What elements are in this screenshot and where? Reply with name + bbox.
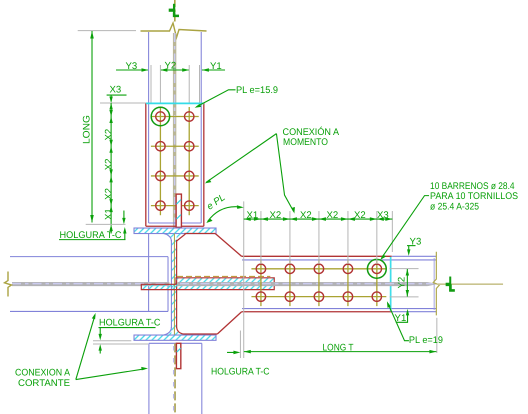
svg-text:CONEXION A: CONEXION A — [15, 367, 71, 378]
column flange right — [200, 32, 202, 223]
right tee bolt lines horizontal — [251, 269, 386, 297]
svg-text:HOLGURA T-C: HOLGURA T-C — [99, 318, 161, 329]
bottom tee flange bar — [134, 335, 216, 340]
beam web centerline dashes — [12, 283, 168, 285]
top plate bottom purple line — [149, 222, 202, 224]
extension line top left — [78, 30, 136, 32]
beam left break symbol — [5, 272, 12, 297]
svg-text:CORTANTE: CORTANTE — [18, 378, 70, 389]
label PL e=15.9 with leader — [195, 85, 278, 108]
gauge extension lines for Y dims — [151, 65, 200, 103]
beam flange lines right (inner) — [242, 256, 436, 311]
green highlight circle top-left bolt — [151, 107, 169, 125]
tee profile bottom edge red — [183, 333, 217, 335]
svg-text:X2: X2 — [104, 129, 115, 141]
top plate right edge — [203, 103, 205, 226]
column below: web — [174, 343, 176, 414]
tee stem stub (section) in top plate — [176, 194, 181, 227]
leader cortante to beam — [76, 313, 96, 380]
extension line plate top left — [100, 102, 146, 104]
svg-text:X3: X3 — [377, 210, 389, 221]
column below: flange right — [201, 343, 203, 414]
bolt gauge lines (olive verticals) — [159, 107, 161, 215]
right tee cyan cut edge — [390, 257, 392, 311]
svg-text:X2: X2 — [104, 158, 115, 170]
label e PL with arc leader — [205, 192, 244, 223]
right Y1 dimension — [395, 309, 410, 324]
label PL e=19 with leader — [387, 301, 443, 346]
top plate PL e=15.9 left edge — [145, 103, 147, 226]
label CONEXION A CORTANTE — [15, 367, 71, 389]
column below: top edge — [149, 342, 202, 344]
LONG dimension — [82, 31, 94, 223]
tee fillets top — [164, 234, 186, 242]
dimension Y2 — [160, 61, 189, 72]
svg-text:HOLGURA T-C: HOLGURA T-C — [211, 366, 270, 377]
top plate bottom red line — [146, 225, 204, 227]
label CONEXION A MOMENTO — [283, 126, 340, 148]
right tee bolt gauge verticals — [261, 259, 377, 306]
left bolt row dimension chain — [109, 103, 125, 234]
green highlight circle right bolt — [367, 259, 386, 278]
column web (top) — [173, 33, 176, 228]
beam centerline right — [437, 283, 503, 285]
tee profile top edge red — [184, 233, 215, 235]
svg-text:PL e=19: PL e=19 — [409, 335, 443, 346]
svg-text:LONG T: LONG T — [323, 342, 354, 353]
svg-text:ø 25.4 A-325: ø 25.4 A-325 — [430, 201, 479, 212]
bolts right tee (10) — [256, 264, 381, 301]
bolt row crosshairs — [151, 117, 199, 206]
beam right break line — [433, 252, 439, 316]
svg-text:PL e=15.9: PL e=15.9 — [236, 85, 278, 96]
LONG T dimension — [244, 342, 437, 353]
beam web gray taper — [427, 282, 436, 286]
bolts top plate (8) — [156, 112, 194, 211]
tee fillets bottom — [164, 327, 184, 335]
right Y3 dimension — [407, 237, 421, 256]
column below: centerline dashes — [173, 346, 175, 414]
tee stem stub below — [176, 343, 180, 368]
centerline symbol top — [169, 4, 179, 17]
beam web gray right — [178, 282, 428, 286]
right chain dimension line — [244, 217, 393, 221]
svg-text:X2: X2 — [104, 188, 115, 200]
svg-text:X2: X2 — [300, 210, 312, 221]
beam web centerline dashes right — [180, 283, 433, 285]
tee flare diagonal top — [215, 234, 241, 257]
svg-text:MOMENTO: MOMENTO — [283, 137, 328, 148]
column top break line — [141, 23, 207, 38]
svg-text:X1: X1 — [104, 208, 115, 220]
right chain extension lines — [240, 201, 436, 358]
leader cortante to column — [76, 367, 148, 380]
dimension Y1 — [202, 61, 225, 72]
beam web gray — [12, 282, 169, 286]
right Y2 dimension — [397, 269, 410, 297]
svg-text:X3: X3 — [110, 85, 122, 96]
leader momento to right chain — [276, 134, 295, 214]
tee stem (hatched) — [164, 234, 185, 336]
right tee plate bottom edge red — [242, 311, 392, 313]
svg-text:Y3: Y3 — [126, 61, 138, 72]
svg-text:LONG: LONG — [82, 115, 93, 144]
extension lines right Y dims — [390, 269, 419, 297]
tee flare diagonal bottom — [217, 312, 241, 334]
svg-text:X2: X2 — [327, 210, 339, 221]
svg-text:X2: X2 — [270, 210, 282, 221]
hidden bolt line web splice — [177, 275, 270, 277]
extension lines holgura middle — [93, 341, 148, 344]
svg-text:Y2: Y2 — [165, 61, 177, 72]
label HOLGURA T-C (top) — [59, 227, 127, 241]
right chain labels — [247, 210, 389, 221]
leader momento to plate edge — [205, 134, 277, 184]
dimension X3 label — [107, 85, 127, 104]
column centerline top — [174, 0, 176, 22]
centerline symbol right — [446, 277, 455, 292]
right tee plate top edge red — [242, 255, 392, 257]
top plate cyan cut edge — [146, 102, 204, 104]
svg-text:Y2: Y2 — [397, 277, 408, 289]
dimension Y3 — [116, 61, 149, 72]
beam left outline — [10, 257, 168, 312]
top tee flange bar — [134, 228, 216, 234]
extension line plate bottom left — [86, 223, 126, 225]
column web centerline dashes (top) — [174, 33, 176, 227]
label 10 BARRENOS — [430, 181, 518, 213]
column flange left — [148, 32, 150, 311]
holgura gap dimension bottom — [227, 351, 240, 355]
label HOLGURA T-C (middle left) — [99, 318, 161, 354]
web splice plate (hatched band) — [141, 278, 274, 290]
leader barrenos to bolt — [380, 196, 429, 260]
column below: flange left — [148, 343, 150, 414]
svg-text:Y1: Y1 — [210, 61, 222, 72]
svg-text:X1: X1 — [247, 210, 259, 221]
svg-text:X2: X2 — [354, 210, 366, 221]
